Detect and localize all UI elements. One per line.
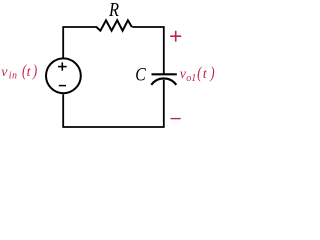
wire: capacitor to bottom rail and back to source (bottom corners) — [63, 80, 164, 127]
voltage source Vin circle — [46, 58, 81, 93]
wire: source top to resistor (top-left corner) — [63, 27, 97, 58]
svg-text:in: in — [9, 71, 18, 82]
svg-text:): ) — [209, 63, 214, 82]
source polarity minus — [59, 85, 66, 87]
capacitor C top plate — [152, 73, 177, 75]
svg-text:R: R — [108, 0, 119, 21]
source polarity plus — [58, 62, 67, 70]
svg-text:v: v — [1, 65, 8, 80]
svg-text:C: C — [135, 65, 146, 86]
capacitor C bottom curved plate — [151, 78, 176, 84]
resistor R — [96, 20, 131, 30]
svg-text:o1: o1 — [186, 73, 196, 84]
wire: resistor to capacitor (top-right corner) — [132, 27, 164, 74]
label vo1(t) — [180, 63, 215, 84]
output polarity plus (red) — [170, 31, 181, 42]
svg-text:): ) — [32, 61, 37, 80]
output polarity minus (red) — [171, 118, 181, 120]
label vin(t) — [1, 61, 37, 82]
